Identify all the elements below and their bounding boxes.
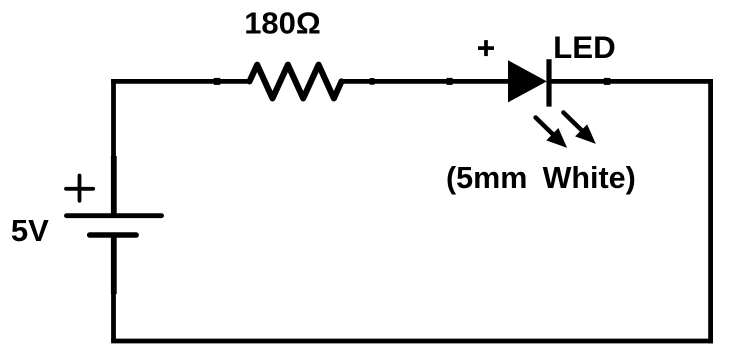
node junction blob right of LED bbox=[604, 78, 611, 85]
svg-text:(5mm White): (5mm White) bbox=[446, 161, 636, 195]
resistor R1 zigzag bbox=[250, 65, 342, 99]
node junction blob mid top wire bbox=[447, 78, 453, 85]
LED D1 light emission arrow 1 bbox=[536, 118, 568, 148]
LED D1 triangle (anode to cathode) bbox=[508, 60, 547, 102]
battery B1 positive plate bbox=[67, 213, 162, 218]
wire top segment (LED cathode to top-right corner) bbox=[552, 79, 714, 84]
LED D1 cathode bar bbox=[546, 59, 551, 106]
LED D1 light emission arrow 2 bbox=[563, 113, 595, 144]
LED D1 anode plus sign bbox=[478, 40, 494, 56]
battery B1 negative lead stub bbox=[111, 235, 117, 294]
svg-text:180Ω: 180Ω bbox=[244, 5, 321, 40]
battery B1 positive lead stub bbox=[111, 156, 117, 214]
wire top segment (corner to resistor) bbox=[111, 79, 250, 84]
wire bottom horizontal bbox=[111, 339, 713, 344]
node junction blob at resistor right lead end bbox=[370, 78, 375, 85]
svg-text:5V: 5V bbox=[11, 213, 49, 248]
battery B1 negative plate bbox=[90, 232, 136, 238]
svg-text:LED: LED bbox=[553, 30, 616, 65]
wire left vertical (to bottom-left corner) bbox=[111, 293, 116, 341]
node junction blob left of resistor bbox=[214, 78, 221, 85]
wire right vertical bbox=[708, 79, 713, 343]
wire left vertical (top-left corner down) bbox=[111, 79, 116, 157]
wire top segment (resistor to LED anode) bbox=[343, 79, 510, 84]
battery B1 plus sign bbox=[66, 176, 93, 201]
